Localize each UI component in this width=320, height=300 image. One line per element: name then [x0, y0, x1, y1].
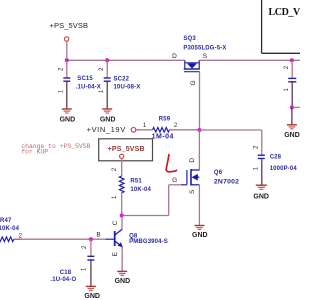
ground Q8 emitter: [115, 271, 131, 285]
svg-text:.1U-04-X: .1U-04-X: [76, 85, 101, 91]
svg-text:+VIN_19V: +VIN_19V: [87, 125, 126, 134]
wire node to C28: [200, 130, 262, 155]
wire Q6 source to ground: [198, 185, 200, 225]
LCD_VDD block top right: [262, 0, 314, 53]
svg-text:1000P-04: 1000P-04: [270, 166, 298, 172]
svg-text:10K-04: 10K-04: [0, 226, 20, 232]
wire SQ3 source to right edge: [199, 59, 300, 61]
svg-text:SC22: SC22: [114, 76, 130, 82]
svg-text:10U-08-X: 10U-08-X: [114, 85, 141, 91]
capacitor C28: [254, 145, 298, 185]
svg-text:GND: GND: [100, 117, 116, 124]
resistor R59: [152, 116, 200, 140]
resistor R51: [112, 158, 152, 215]
svg-text:B: B: [96, 231, 100, 238]
annotation red scribble: [166, 155, 176, 172]
node R51/Q8/Q6-gate junction: [120, 214, 124, 218]
svg-text:Q6: Q6: [214, 170, 223, 176]
port +VIN_19V: [87, 123, 153, 134]
node junction right cap bottom: [290, 105, 294, 109]
svg-text:R59: R59: [159, 116, 171, 122]
svg-text:C28: C28: [270, 155, 282, 161]
svg-text:GND: GND: [192, 232, 208, 239]
svg-text:GND: GND: [84, 293, 100, 300]
svg-text:E: E: [112, 251, 119, 256]
wire Q8 emitter to ground: [121, 247, 123, 271]
wire SQ3 gate down to node: [199, 72, 201, 130]
power symbol +PS_5VSB boxed (annotation): [99, 139, 153, 161]
svg-text:P3055LDG-5-X: P3055LDG-5-X: [183, 46, 226, 52]
wire main top net y=60: [67, 59, 185, 61]
svg-text:+PS_5VSB: +PS_5VSB: [50, 21, 89, 30]
svg-text:C18: C18: [60, 270, 72, 276]
ground SC22: [100, 109, 116, 124]
wire node down to Q6 drain: [198, 130, 200, 170]
svg-text:for KUP: for KUP: [21, 149, 48, 156]
svg-text:R47: R47: [0, 218, 12, 224]
svg-text:1M-04: 1M-04: [152, 133, 174, 140]
wire Q6 gate to R51/Q8 node: [122, 185, 181, 216]
capacitor SC22: [99, 60, 140, 109]
transistor Q8 NPN: [96, 229, 168, 256]
svg-text:.1U-04-O: .1U-04-O: [50, 277, 76, 283]
svg-text:+PS_5VSB: +PS_5VSB: [108, 146, 145, 153]
annotation red text: [21, 143, 90, 156]
svg-text:GND: GND: [60, 117, 76, 124]
svg-text:2N7002: 2N7002: [214, 179, 239, 186]
svg-text:GND: GND: [284, 132, 300, 139]
capacitor C? right edge: [284, 60, 296, 107]
svg-text:D: D: [189, 158, 196, 163]
wire node down to Q8 collector: [112, 216, 122, 230]
resistor R47: [0, 218, 23, 242]
svg-text:G: G: [190, 80, 197, 85]
svg-text:G: G: [172, 177, 177, 184]
node C18/base junction: [89, 237, 93, 241]
svg-text:S: S: [189, 189, 196, 194]
svg-text:D: D: [172, 53, 177, 60]
svg-text:GND: GND: [253, 194, 269, 201]
svg-text:10K-04: 10K-04: [130, 187, 151, 193]
wire right cap bottom to edge: [292, 107, 300, 124]
capacitor C18: [50, 239, 94, 286]
node junction right cap top: [290, 58, 294, 62]
svg-text:S: S: [203, 53, 208, 60]
svg-text:R51: R51: [130, 179, 142, 185]
ground SC15: [60, 109, 76, 124]
wire R47 to Q8 base: [14, 238, 106, 240]
svg-text:SQ3: SQ3: [183, 36, 196, 42]
node junction at SC15 top: [65, 58, 69, 62]
svg-text:LCD_VDD: LCD_VDD: [269, 7, 301, 18]
node gate junction: [198, 128, 202, 132]
svg-text:C: C: [112, 220, 119, 225]
ground C28: [253, 185, 269, 200]
capacitor SC15: [59, 60, 101, 109]
power symbol +PS_5VSB top: [50, 21, 89, 60]
ground C18: [84, 286, 100, 300]
transistor SQ3 P-MOSFET: [172, 36, 226, 86]
svg-text:GND: GND: [115, 278, 131, 285]
svg-text:PMBG3904-S: PMBG3904-S: [129, 239, 168, 245]
svg-text:SC15: SC15: [77, 76, 93, 82]
ground Q6: [192, 226, 208, 240]
ground right cap: [284, 125, 300, 139]
transistor Q6 N-MOSFET: [172, 158, 239, 194]
node junction at SC22 top: [105, 58, 109, 62]
